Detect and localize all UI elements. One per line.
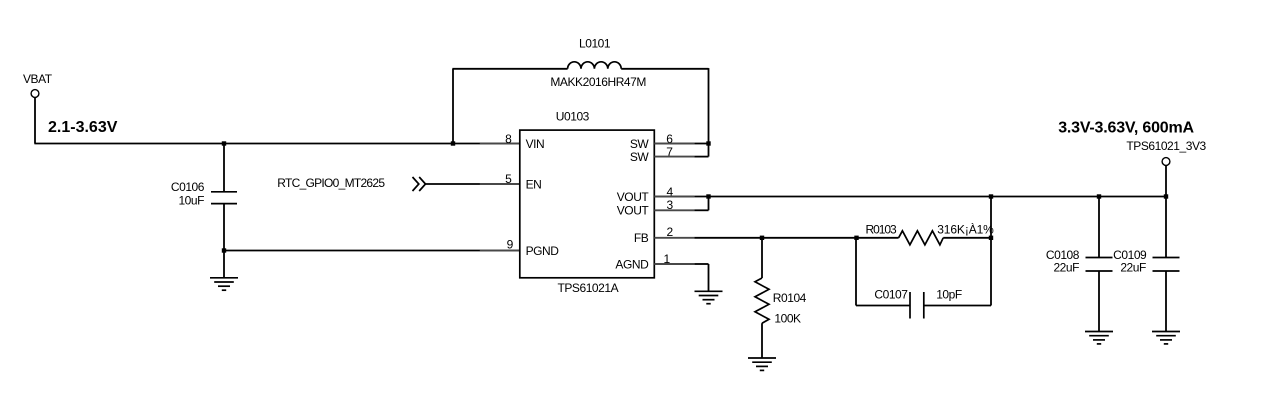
wire FB branch drop to C0107 xyxy=(855,238,857,306)
pin 2 stub of U0103 xyxy=(654,237,694,239)
junction VOUT pins xyxy=(706,194,710,198)
junction C0106 top xyxy=(222,141,226,145)
pin 3 stub of U0103 xyxy=(654,209,694,211)
svg-text:5: 5 xyxy=(505,172,512,186)
junction C0109 / VOUT rail xyxy=(1164,194,1168,198)
svg-text:VOUT: VOUT xyxy=(617,204,650,218)
svg-text:SW: SW xyxy=(630,137,650,151)
wire PGND rail xyxy=(224,250,480,252)
junction SW pins xyxy=(706,141,710,145)
wire C0109 upper lead xyxy=(1165,197,1167,258)
svg-text:U0103: U0103 xyxy=(556,110,590,124)
inductor L0101 xyxy=(568,62,622,69)
op-amp U0103 body xyxy=(520,130,655,278)
ground under C0109 xyxy=(1152,332,1180,344)
junction FB / R0103 / C0107 branch xyxy=(854,236,858,240)
capacitor C0108 xyxy=(1086,258,1113,272)
svg-text:C0106: C0106 xyxy=(171,180,205,194)
svg-text:AGND: AGND xyxy=(615,257,649,271)
resistor R0103 xyxy=(899,231,944,245)
terminal VBAT xyxy=(31,90,39,98)
wire VOUT pin 3 jog xyxy=(694,209,708,211)
svg-text:EN: EN xyxy=(526,177,542,191)
off-page connector arrow EN xyxy=(413,177,426,191)
wire R0103 left lead xyxy=(855,237,898,239)
wire R0104 bottom lead xyxy=(761,323,763,358)
wire R0103 right lead xyxy=(943,237,991,239)
terminal TPS61021_3V3 xyxy=(1162,158,1170,166)
wire FB rail xyxy=(694,237,856,239)
junction C0106 / PGND rail xyxy=(222,248,226,252)
ground AGND xyxy=(695,291,723,303)
pin 4 stub of U0103 xyxy=(654,196,694,198)
svg-text:10uF: 10uF xyxy=(178,194,204,208)
svg-text:MAKK2016HR47M: MAKK2016HR47M xyxy=(550,75,646,89)
wire EN xyxy=(426,183,481,185)
wire SW pin 6 to inductor riser xyxy=(694,143,708,145)
svg-text:VBAT: VBAT xyxy=(23,72,53,86)
junction inductor left / VIN rail xyxy=(451,141,455,145)
svg-text:R0104: R0104 xyxy=(773,291,807,305)
svg-text:TPS61021A: TPS61021A xyxy=(558,281,619,295)
ground under C0108 xyxy=(1085,332,1113,344)
wire AGND drop xyxy=(708,264,710,291)
wire AGND xyxy=(694,263,708,265)
svg-text:9: 9 xyxy=(507,238,514,252)
wire inductor top right xyxy=(621,68,708,70)
junction R0103 / feedback riser xyxy=(989,236,993,240)
svg-text:100K: 100K xyxy=(774,312,801,326)
wire VOUT pin 3 riser xyxy=(708,196,710,211)
junction C0108 / VOUT rail xyxy=(1097,194,1101,198)
svg-text:2: 2 xyxy=(667,225,674,239)
svg-text:RTC_GPIO0_MT2625: RTC_GPIO0_MT2625 xyxy=(277,176,385,190)
pin 1 stub of U0103 xyxy=(654,263,694,265)
wire inductor top left xyxy=(452,68,567,70)
wire SW pin 7 to inductor riser xyxy=(694,156,708,158)
pin 7 stub of U0103 xyxy=(654,156,694,158)
pin 9 stub of U0103 xyxy=(480,250,520,252)
svg-text:2.1-3.63V: 2.1-3.63V xyxy=(48,119,118,136)
junction FB / R0104 xyxy=(760,236,764,240)
wire R0104 top lead xyxy=(761,238,763,278)
wire C0108 upper lead xyxy=(1098,197,1100,258)
svg-text:R0103: R0103 xyxy=(866,223,897,237)
svg-text:SW: SW xyxy=(630,150,650,164)
pin 6 stub of U0103 xyxy=(654,143,694,145)
svg-text:8: 8 xyxy=(505,132,512,146)
ground under R0104 xyxy=(748,358,776,370)
wire VBAT rail to VIN pin 8 xyxy=(34,143,480,145)
ground under C0106 xyxy=(210,278,238,290)
svg-text:10pF: 10pF xyxy=(936,287,962,301)
svg-text:FB: FB xyxy=(634,231,649,245)
wire C0107 right lead xyxy=(924,305,991,307)
pin 8 stub of U0103 xyxy=(480,143,520,145)
svg-text:PGND: PGND xyxy=(526,244,560,258)
capacitor C0107 xyxy=(910,292,924,319)
svg-text:316K¡À1%: 316K¡À1% xyxy=(937,222,994,237)
wire inductor right drop to SW xyxy=(708,68,710,157)
wire feedback riser xyxy=(990,197,992,306)
junction VOUT rail / feedback riser xyxy=(989,194,993,198)
wire C0107 left lead xyxy=(856,305,910,307)
pin 5 stub of U0103 xyxy=(480,183,520,185)
wire output terminal drop xyxy=(1165,165,1167,196)
wire C0109 lower lead xyxy=(1165,271,1167,332)
wire C0108 lower lead xyxy=(1098,271,1100,332)
capacitor C0106 xyxy=(211,192,237,204)
svg-text:22uF: 22uF xyxy=(1053,261,1079,275)
capacitor C0109 xyxy=(1153,258,1180,272)
svg-text:TPS61021_3V3: TPS61021_3V3 xyxy=(1126,139,1206,153)
wire inductor left riser xyxy=(452,69,454,144)
svg-text:VIN: VIN xyxy=(526,137,545,151)
resistor R0104 xyxy=(755,278,769,323)
wire VOUT rail xyxy=(694,196,1166,198)
wire C0106 lower lead xyxy=(223,204,225,278)
svg-text:C0107: C0107 xyxy=(874,287,908,301)
svg-text:L0101: L0101 xyxy=(579,37,611,51)
svg-text:3.3V-3.63V, 600mA: 3.3V-3.63V, 600mA xyxy=(1058,119,1194,136)
wire C0106 upper lead xyxy=(223,144,225,192)
wire VBAT terminal drop xyxy=(34,97,36,143)
svg-text:VOUT: VOUT xyxy=(617,190,650,204)
svg-text:22uF: 22uF xyxy=(1120,261,1146,275)
